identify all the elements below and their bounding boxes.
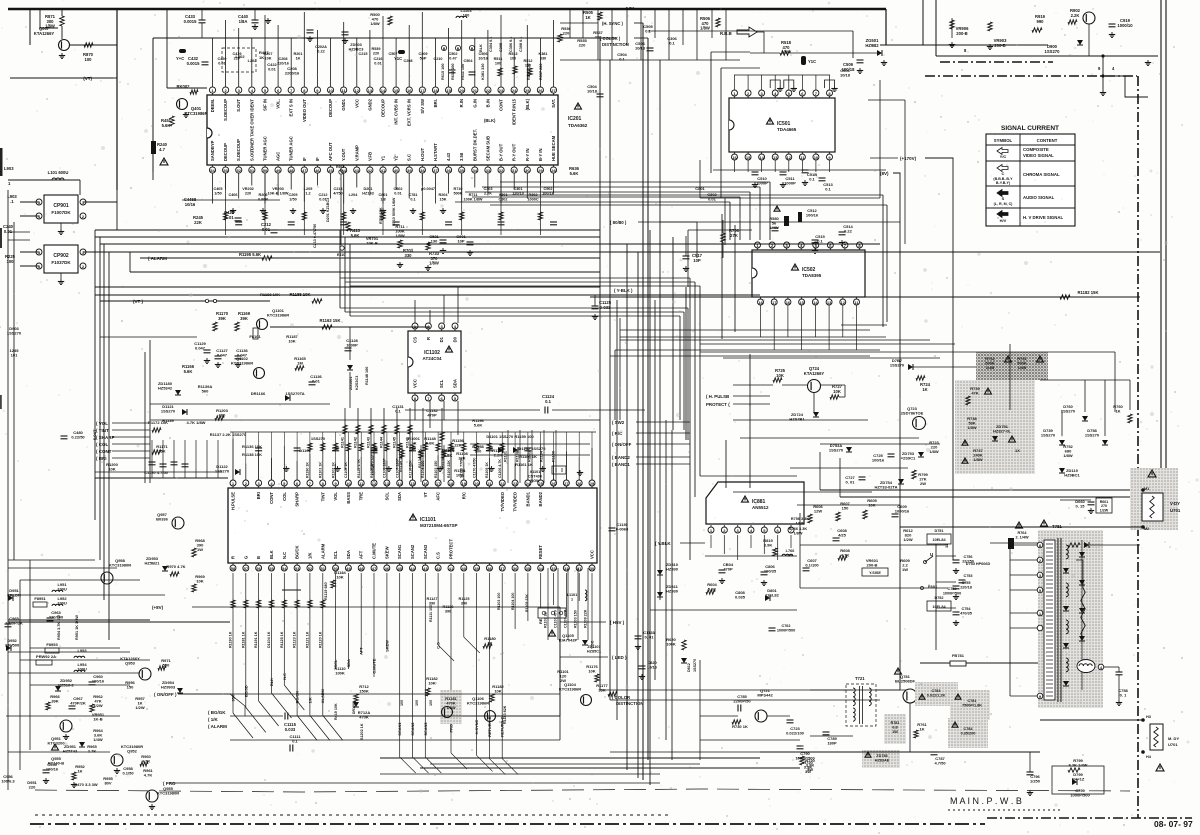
svg-text:( 80/80 ): ( 80/80 ) xyxy=(610,220,627,225)
svg-text:46: 46 xyxy=(315,168,320,173)
svg-text:55: 55 xyxy=(269,566,274,571)
svg-text:R1142: R1142 xyxy=(354,437,358,448)
svg-text:51: 51 xyxy=(321,566,326,571)
svg-text:F1037DK: F1037DK xyxy=(51,260,71,265)
svg-text:R1138 10K: R1138 10K xyxy=(242,452,262,457)
svg-text:C502: C502 xyxy=(448,52,457,56)
svg-text:S/V SW: S/V SW xyxy=(420,99,425,114)
svg-text:C301: C301 xyxy=(513,187,522,191)
svg-text:R511: R511 xyxy=(494,57,503,61)
svg-text:VOL: VOL xyxy=(333,492,338,501)
svg-text:COMPOSITE: COMPOSITE xyxy=(1023,147,1049,152)
svg-text:10K: 10K xyxy=(288,339,295,344)
svg-text:16: 16 xyxy=(786,300,791,305)
svg-text:14: 14 xyxy=(759,155,764,160)
svg-text:B-Y.B-Y): B-Y.B-Y) xyxy=(996,181,1011,185)
svg-text:SANDBYP: SANDBYP xyxy=(210,140,215,161)
svg-text:S.OUT: S.OUT xyxy=(249,148,254,161)
svg-text:C308 0.1: C308 0.1 xyxy=(519,37,523,52)
svg-text:R1195 5.6K: R1195 5.6K xyxy=(239,252,261,257)
svg-text:30: 30 xyxy=(590,566,595,571)
svg-text:HZ9B2: HZ9B2 xyxy=(865,43,879,48)
svg-text:R1105 1K: R1105 1K xyxy=(485,462,489,478)
svg-text:S: S xyxy=(1002,196,1005,201)
svg-text:3.3/50: 3.3/50 xyxy=(258,197,269,201)
svg-text:1SS270TA: 1SS270TA xyxy=(285,391,304,396)
svg-text:1.2: 1.2 xyxy=(305,191,310,195)
svg-text:5.6K: 5.6K xyxy=(570,171,579,176)
svg-text:0.0015: 0.0015 xyxy=(187,61,200,66)
svg-text:K381: K381 xyxy=(538,52,547,56)
svg-text:220/18: 220/18 xyxy=(960,585,972,589)
svg-text:200-B: 200-B xyxy=(867,563,878,568)
svg-text:AT24C04: AT24C04 xyxy=(423,356,442,361)
svg-text:R1137 2.2K 1SS270: R1137 2.2K 1SS270 xyxy=(210,432,247,437)
svg-text:1SS270: 1SS270 xyxy=(1041,433,1056,438)
svg-text:ZD786: ZD786 xyxy=(876,754,887,758)
svg-text:08- 07- 97: 08- 07- 97 xyxy=(1154,819,1193,829)
svg-text:R756 3.3K: R756 3.3K xyxy=(791,517,809,521)
svg-text:1K: 1K xyxy=(919,727,924,732)
svg-text:C.S: C.S xyxy=(436,552,441,559)
svg-text:54: 54 xyxy=(282,566,287,571)
svg-text:R1119 680: R1119 680 xyxy=(324,582,328,600)
svg-text:16: 16 xyxy=(407,88,412,93)
svg-text:0.1: 0.1 xyxy=(825,187,831,192)
svg-text:D1101 1SS270 R1159 100: D1101 1SS270 R1159 100 xyxy=(486,434,534,439)
svg-text:R470 3.3 3W: R470 3.3 3W xyxy=(74,782,98,787)
svg-text:KTA1266Y: KTA1266Y xyxy=(34,31,55,36)
svg-text:SKEW: SKEW xyxy=(384,640,389,652)
svg-text:40: 40 xyxy=(462,566,467,571)
svg-text:R1103 150: R1103 150 xyxy=(574,610,578,628)
svg-text:PROTECT: PROTECT xyxy=(448,539,453,559)
svg-text:1000P/500: 1000P/500 xyxy=(943,591,961,595)
svg-text:L202: L202 xyxy=(235,54,245,59)
svg-text:470P: 470P xyxy=(427,413,437,418)
svg-text:( 1/K: ( 1/K xyxy=(208,717,219,722)
svg-text:100/16: 100/16 xyxy=(46,767,59,772)
svg-text:VT: VT xyxy=(423,492,428,498)
svg-text:1K: 1K xyxy=(77,769,82,774)
svg-text:D0: D0 xyxy=(453,336,458,342)
svg-text:TUNER TAKE OVER IDENT: TUNER TAKE OVER IDENT xyxy=(249,99,254,153)
svg-text:23: 23 xyxy=(513,481,518,486)
svg-text:SDA: SDA xyxy=(453,379,458,388)
svg-text:35: 35 xyxy=(526,566,531,571)
svg-text:10P: 10P xyxy=(457,239,464,244)
svg-text:3W: 3W xyxy=(807,767,813,772)
svg-text:TV/VIDEO: TV/VIDEO xyxy=(500,491,505,511)
svg-text:39K: 39K xyxy=(51,699,58,704)
svg-text:28: 28 xyxy=(551,168,556,173)
svg-text:BRI: BRI xyxy=(256,492,261,499)
svg-text:BG/5D: BG/5D xyxy=(243,685,248,697)
svg-text:Y+C: Y+C xyxy=(176,56,184,61)
svg-text:(+8V): (+8V) xyxy=(152,605,164,610)
svg-text:BAND1: BAND1 xyxy=(525,491,530,506)
svg-text:( BAND2: ( BAND2 xyxy=(612,455,630,460)
svg-text:Q952: Q952 xyxy=(127,749,138,754)
svg-text:1SS270: 1SS270 xyxy=(1085,433,1100,438)
svg-text:Y1: Y1 xyxy=(381,155,386,161)
svg-text:30: 30 xyxy=(525,168,530,173)
svg-text:3.58: 3.58 xyxy=(459,152,464,161)
svg-text:( CONT: ( CONT xyxy=(96,449,112,454)
svg-text:52: 52 xyxy=(237,168,242,173)
svg-text:R1182 15K: R1182 15K xyxy=(1078,290,1099,295)
svg-text:C302: C302 xyxy=(498,197,507,201)
svg-text:U701: U701 xyxy=(1170,508,1181,513)
svg-text:BURST DK.DET.: BURST DK.DET. xyxy=(472,129,477,161)
svg-text:17: 17 xyxy=(772,300,777,305)
svg-text:390: 390 xyxy=(445,609,451,613)
svg-text:C1106 4.7K: C1106 4.7K xyxy=(498,459,502,478)
svg-text:101: 101 xyxy=(11,353,18,358)
svg-text:0.35/200: 0.35/200 xyxy=(961,731,976,735)
svg-text:100/16: 100/16 xyxy=(806,213,819,218)
svg-text:44: 44 xyxy=(410,566,415,571)
svg-text:1/8: 1/8 xyxy=(380,197,385,201)
svg-text:L766: L766 xyxy=(786,549,795,553)
svg-text:R1190 1K: R1190 1K xyxy=(229,631,233,648)
svg-text:0.033: 0.033 xyxy=(285,727,296,732)
svg-text:=2S9C1: =2S9C1 xyxy=(901,456,916,461)
svg-text:3.9K: 3.9K xyxy=(764,543,773,548)
svg-text:X1101: X1101 xyxy=(530,470,541,474)
svg-text:42: 42 xyxy=(436,566,441,571)
svg-text:33: 33 xyxy=(486,168,491,173)
svg-text:1/K: 1/K xyxy=(307,552,312,559)
svg-text:L205: L205 xyxy=(304,187,313,191)
svg-text:0.01: 0.01 xyxy=(394,191,401,195)
svg-text:2.2K: 2.2K xyxy=(1071,13,1080,18)
svg-text:100/35: 100/35 xyxy=(764,569,777,574)
svg-text:L903: L903 xyxy=(4,166,14,171)
svg-text:2200P/50: 2200P/50 xyxy=(733,699,751,704)
svg-text:M1: M1 xyxy=(1144,487,1149,491)
svg-text:200-B: 200-B xyxy=(956,31,967,36)
svg-text:1SS270: 1SS270 xyxy=(1061,409,1076,414)
svg-text:C216: C216 xyxy=(373,57,382,61)
svg-text:12W: 12W xyxy=(814,509,822,514)
svg-text:10K: 10K xyxy=(833,389,841,394)
svg-text:1/8W: 1/8W xyxy=(370,21,380,26)
svg-text:R766 3.3K: R766 3.3K xyxy=(789,527,807,531)
svg-text:C208: C208 xyxy=(278,57,287,61)
svg-text:HZ85C1: HZ85C1 xyxy=(587,649,601,653)
svg-text:39K: 39K xyxy=(240,316,248,321)
svg-text:( H. PULSB: ( H. PULSB xyxy=(706,394,729,399)
svg-text:1/250: 1/250 xyxy=(1030,779,1041,784)
svg-text:C210: C210 xyxy=(433,57,442,61)
svg-text:S.DECOUP: S.DECOUP xyxy=(236,139,241,161)
svg-text:990: 990 xyxy=(1037,19,1045,24)
svg-text:(BLK): (BLK) xyxy=(484,118,496,123)
svg-text:H3: H3 xyxy=(1146,715,1151,719)
svg-text:1X: 1X xyxy=(1015,448,1020,453)
svg-text:D201: D201 xyxy=(363,187,372,191)
svg-text:17: 17 xyxy=(436,481,441,486)
svg-text:0.47: 0.47 xyxy=(449,56,456,60)
svg-text:2.7K: 2.7K xyxy=(88,749,97,754)
svg-text:220: 220 xyxy=(579,43,586,48)
svg-text:R1109 22K: R1109 22K xyxy=(584,609,588,628)
svg-text:0-033: 0-033 xyxy=(600,305,611,310)
svg-text:C783: C783 xyxy=(931,689,940,693)
svg-text:( LED ): ( LED ) xyxy=(612,655,627,660)
svg-text:KTC31986R: KTC31986R xyxy=(231,361,253,366)
svg-text:0.01: 0.01 xyxy=(312,379,321,384)
svg-text:14: 14 xyxy=(381,88,386,93)
svg-text:SCAN1: SCAN1 xyxy=(397,544,402,559)
svg-text:CONTENT: CONTENT xyxy=(1037,138,1058,143)
svg-text:R1123 1K: R1123 1K xyxy=(293,631,297,648)
svg-text:C306 0.1: C306 0.1 xyxy=(509,37,513,52)
svg-text:R/C: R/C xyxy=(461,492,466,499)
svg-text:R-Y IN: R-Y IN xyxy=(525,149,530,162)
svg-text:HZS7B1: HZS7B1 xyxy=(789,417,805,422)
svg-text:S.OUT: S.OUT xyxy=(236,99,241,112)
svg-text:1/K: 1/K xyxy=(307,697,312,703)
svg-text:180P: 180P xyxy=(827,741,837,746)
svg-text:SCAN2: SCAN2 xyxy=(410,544,415,559)
svg-text:TRE: TRE xyxy=(359,492,364,501)
svg-text:K381 330: K381 330 xyxy=(481,64,485,80)
svg-text:F8953: F8953 xyxy=(46,642,58,647)
svg-text:L101 600U: L101 600U xyxy=(48,170,69,175)
svg-text:0.035: 0.035 xyxy=(735,595,746,600)
svg-text:49: 49 xyxy=(276,168,281,173)
svg-text:K2S3C3: K2S3C3 xyxy=(355,376,359,390)
svg-text:C1109 120P: C1109 120P xyxy=(383,458,387,478)
svg-text:33: 33 xyxy=(551,566,556,571)
svg-text:42: 42 xyxy=(368,168,373,173)
svg-text:R1109 22K: R1109 22K xyxy=(447,460,451,478)
svg-text:HZ9903: HZ9903 xyxy=(161,685,176,690)
svg-text:( VOL: ( VOL xyxy=(96,421,108,426)
svg-text:R1110 22K: R1110 22K xyxy=(408,460,412,478)
svg-text:1/4W: 1/4W xyxy=(93,737,103,742)
svg-text:37: 37 xyxy=(433,168,438,173)
svg-text:R419 10K: R419 10K xyxy=(334,703,338,720)
svg-text:TINT: TINT xyxy=(320,492,325,502)
svg-text:1SS270: 1SS270 xyxy=(693,659,697,672)
svg-text:100K 1/8W: 100K 1/8W xyxy=(464,197,483,201)
svg-text:NGW: NGW xyxy=(530,479,540,483)
svg-text:1W: 1W xyxy=(902,567,908,572)
svg-text:HZ5342: HZ5342 xyxy=(158,386,173,391)
svg-text:10/18: 10/18 xyxy=(587,89,598,94)
svg-text:1/8A: 1/8A xyxy=(239,19,248,24)
svg-text:BLK: BLK xyxy=(479,44,483,52)
svg-text:N.C: N.C xyxy=(282,552,287,559)
svg-text:SYMBOL: SYMBOL xyxy=(994,138,1013,143)
svg-text:0.022/1.2K: 0.022/1.2K xyxy=(927,693,946,697)
svg-text:1/8W: 1/8W xyxy=(929,449,939,454)
svg-text:C1108 1K: C1108 1K xyxy=(344,462,348,478)
svg-text:100: 100 xyxy=(429,700,433,706)
svg-text:M37210M4-657SP: M37210M4-657SP xyxy=(420,523,458,528)
svg-text:SCL: SCL xyxy=(384,492,389,501)
svg-text:AN5512: AN5512 xyxy=(752,505,769,510)
svg-text:37: 37 xyxy=(500,566,505,571)
svg-text:34: 34 xyxy=(538,566,543,571)
svg-text:12: 12 xyxy=(787,155,792,160)
svg-text:31: 31 xyxy=(512,168,517,173)
svg-text:R1125 1.7K: R1125 1.7K xyxy=(357,459,361,478)
svg-text:43: 43 xyxy=(423,566,428,571)
svg-text:SCL: SCL xyxy=(439,379,444,388)
svg-text:0.1: 0.1 xyxy=(395,409,401,414)
svg-text:DISTINCTION: DISTINCTION xyxy=(616,701,643,706)
svg-text:DECOUP: DECOUP xyxy=(381,99,386,117)
svg-text:C1120 4.7/50: C1120 4.7/50 xyxy=(144,470,169,475)
svg-text:L202: L202 xyxy=(248,59,257,63)
svg-text:1K: 1K xyxy=(922,387,927,392)
svg-text:41: 41 xyxy=(449,566,454,571)
svg-text:80V: 80V xyxy=(104,781,111,786)
svg-text:R536 220: R536 220 xyxy=(527,64,531,80)
svg-text:10K: 10K xyxy=(108,467,115,472)
svg-text:14: 14 xyxy=(813,300,818,305)
svg-text:S1202 1K: S1202 1K xyxy=(360,723,364,740)
svg-text:1/4B: 1/4B xyxy=(986,365,995,370)
svg-text:13: 13 xyxy=(773,155,778,160)
svg-text:1SS270: 1SS270 xyxy=(161,409,176,414)
svg-text:5.6K: 5.6K xyxy=(474,423,483,428)
svg-text:20: 20 xyxy=(459,88,464,93)
svg-text:0. 15: 0. 15 xyxy=(1076,504,1086,509)
svg-text:50: 50 xyxy=(263,168,268,173)
svg-text:KTC31980R: KTC31980R xyxy=(109,563,131,568)
svg-text:SAT.: SAT. xyxy=(551,99,556,108)
svg-text:EXT S IN: EXT S IN xyxy=(289,99,294,116)
svg-text:0. 01: 0. 01 xyxy=(846,480,856,485)
svg-text:200-B: 200-B xyxy=(994,43,1005,48)
svg-text:C801: C801 xyxy=(378,193,387,197)
svg-text:100: 100 xyxy=(415,700,419,706)
svg-text:10/18: 10/18 xyxy=(840,73,851,78)
svg-text:DECOUP: DECOUP xyxy=(223,143,228,161)
svg-text:1000P/500: 1000P/500 xyxy=(777,628,795,632)
svg-text:1/4B: 1/4B xyxy=(1018,365,1027,370)
svg-text:1/8W: 1/8W xyxy=(1063,453,1073,458)
svg-text:2. 1/4W: 2. 1/4W xyxy=(1015,535,1028,539)
svg-text:C781: C781 xyxy=(967,699,976,703)
svg-text:1/8W: 1/8W xyxy=(967,425,977,430)
svg-text:1/8W: 1/8W xyxy=(796,521,805,525)
svg-text:1K-B: 1K-B xyxy=(93,717,102,722)
svg-text:C762: C762 xyxy=(781,624,790,628)
svg-text:GND1: GND1 xyxy=(341,98,346,110)
svg-text:ALARM: ALARM xyxy=(320,543,325,559)
svg-text:15: 15 xyxy=(746,155,751,160)
svg-text:R710 500K 1/8W: R710 500K 1/8W xyxy=(392,197,396,226)
svg-text:C202A: C202A xyxy=(315,45,327,49)
svg-text:R951 1K 1/8W: R951 1K 1/8W xyxy=(75,615,79,640)
svg-text:390: 390 xyxy=(429,601,435,605)
svg-text:R764: R764 xyxy=(1017,531,1027,535)
svg-text:D812: D812 xyxy=(687,663,691,672)
svg-text:22: 22 xyxy=(486,88,491,93)
svg-text:470K: 470K xyxy=(359,715,369,720)
svg-text:IDENT P.IN15: IDENT P.IN15 xyxy=(512,98,517,125)
svg-text:R1125: R1125 xyxy=(459,597,470,601)
svg-text:( TINT: ( TINT xyxy=(96,428,109,433)
svg-text:27: 27 xyxy=(564,481,569,486)
svg-text:R1104 100: R1104 100 xyxy=(421,461,425,478)
svg-text:KTC31986R: KTC31986R xyxy=(267,313,289,318)
svg-text:220: 220 xyxy=(563,31,570,36)
svg-text:V.FB: V.FB xyxy=(367,152,372,161)
svg-text:1SS270: 1SS270 xyxy=(1045,49,1061,54)
svg-text:VR203: VR203 xyxy=(272,187,284,191)
svg-text:R1161 1K: R1161 1K xyxy=(515,462,533,467)
svg-text:48: 48 xyxy=(289,168,294,173)
svg-text:47: 47 xyxy=(302,168,307,173)
svg-text:2SD786TOE: 2SD786TOE xyxy=(901,411,924,416)
svg-text:D1102 1SS270: D1102 1SS270 xyxy=(519,446,547,451)
svg-text:1/8W: 1/8W xyxy=(700,26,710,31)
svg-text:2W: 2W xyxy=(920,481,926,486)
svg-text:Y/C: Y/C xyxy=(1000,154,1007,159)
svg-text:VIDEO OUT: VIDEO OUT xyxy=(302,99,307,122)
svg-text:R539: R539 xyxy=(371,47,380,51)
svg-text:29: 29 xyxy=(590,481,595,486)
svg-text:21: 21 xyxy=(473,88,478,93)
svg-text:TDA4665: TDA4665 xyxy=(777,127,797,132)
svg-text:10/18: 10/18 xyxy=(635,46,646,51)
svg-text:10/16: 10/16 xyxy=(647,665,658,670)
svg-text:22K: 22K xyxy=(194,220,202,225)
svg-text:1K: 1K xyxy=(259,55,264,60)
svg-text:AUDIO SIGNAL: AUDIO SIGNAL xyxy=(1023,195,1055,200)
svg-text:CST400: CST400 xyxy=(528,474,542,478)
svg-text:R1127: R1127 xyxy=(427,597,438,601)
svg-text:U701: U701 xyxy=(1168,742,1178,747)
svg-text:MPS442: MPS442 xyxy=(757,693,773,698)
svg-text:M. DY: M. DY xyxy=(1168,736,1179,741)
svg-text:49: 49 xyxy=(346,566,351,571)
svg-text:1/8W: 1/8W xyxy=(429,261,439,266)
svg-text:E601: E601 xyxy=(336,165,344,169)
svg-text:E610: E610 xyxy=(337,253,345,257)
svg-text:R705 15K: R705 15K xyxy=(379,207,383,224)
svg-text:10/16: 10/16 xyxy=(478,56,488,60)
svg-text:51: 51 xyxy=(250,168,255,173)
svg-text:HZ5B21: HZ5B21 xyxy=(145,561,161,566)
svg-text:8.2K 1/4W: 8.2K 1/4W xyxy=(1069,763,1088,768)
svg-text:20: 20 xyxy=(474,481,479,486)
svg-text:1000/16: 1000/16 xyxy=(895,509,910,514)
svg-text:550: 550 xyxy=(163,663,170,668)
svg-text:SECAM SUB: SECAM SUB xyxy=(485,136,490,161)
svg-text:( BAND1: ( BAND1 xyxy=(612,462,630,467)
svg-text:R1145: R1145 xyxy=(393,437,397,448)
svg-text:IC201: IC201 xyxy=(568,116,582,122)
svg-text:C205: C205 xyxy=(288,193,297,197)
svg-text:0.047: 0.047 xyxy=(217,353,228,358)
svg-text:0.1: 0.1 xyxy=(619,57,625,62)
svg-text:1/8W: 1/8W xyxy=(973,457,983,462)
svg-text:R954 3.7K 1W: R954 3.7K 1W xyxy=(57,615,61,640)
svg-text:SHARP: SHARP xyxy=(295,492,300,507)
svg-text:19: 19 xyxy=(462,481,467,486)
svg-text:0-0068: 0-0068 xyxy=(616,527,629,532)
svg-text:C902: C902 xyxy=(543,187,552,191)
svg-text:10/16: 10/16 xyxy=(185,202,196,207)
